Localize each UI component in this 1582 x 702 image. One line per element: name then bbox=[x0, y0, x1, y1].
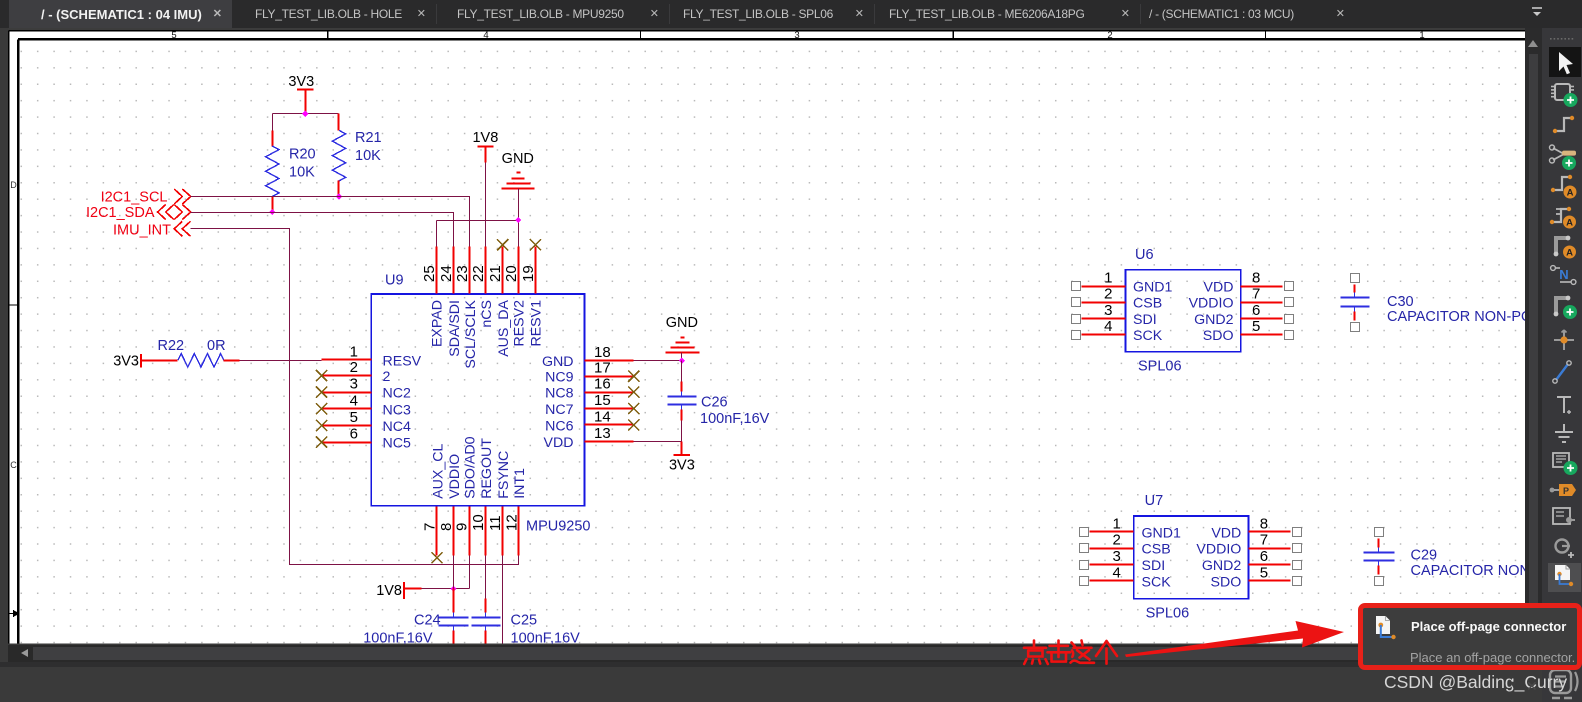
svg-text:5: 5 bbox=[171, 30, 176, 41]
svg-text:14: 14 bbox=[594, 409, 611, 426]
red annotation arrow bbox=[1125, 621, 1344, 657]
svg-text:17: 17 bbox=[594, 360, 611, 377]
svg-text:VDD: VDD bbox=[1211, 525, 1241, 541]
U9 pin 5 (NC4) bbox=[316, 409, 411, 435]
U7 pin 6 (GND2) bbox=[1202, 548, 1302, 574]
svg-text:3: 3 bbox=[1104, 302, 1112, 319]
svg-text:2: 2 bbox=[1107, 30, 1112, 41]
wire 1V8 rail to pins 8,9 bbox=[422, 588, 470, 590]
U9 pin 11 (FSYNC) bbox=[487, 451, 512, 556]
U9 pin 20 (RESV2) bbox=[503, 247, 528, 347]
svg-text:N: N bbox=[1559, 267, 1568, 282]
U7 pin 5 (SDO) bbox=[1211, 565, 1302, 591]
svg-text:4: 4 bbox=[1112, 565, 1120, 582]
IC U9 MPU9250 body bbox=[371, 273, 590, 535]
svg-text:4: 4 bbox=[483, 30, 488, 41]
wire U9 pin8 column down bbox=[453, 556, 455, 589]
junction GND/C26/pin18 bbox=[679, 358, 685, 364]
svg-text:SDO: SDO bbox=[1211, 575, 1242, 591]
svg-text:GND2: GND2 bbox=[1202, 558, 1242, 574]
ground symbol GND (top, near U9) bbox=[502, 151, 535, 221]
svg-text:8: 8 bbox=[438, 523, 455, 531]
capacitor C29 CAPACITOR NON-POL bbox=[1364, 528, 1564, 586]
svg-text:CAPACITOR NON-POL: CAPACITOR NON-POL bbox=[1411, 563, 1526, 579]
svg-text:10: 10 bbox=[470, 514, 487, 531]
svg-text:20: 20 bbox=[503, 265, 520, 282]
power symbol 1V8 (bottom) bbox=[376, 582, 421, 599]
svg-text:1: 1 bbox=[1419, 30, 1424, 41]
svg-text:3: 3 bbox=[350, 376, 358, 393]
U7 pin 1 (GND1) bbox=[1080, 515, 1182, 541]
capacitor C30 CAPACITOR NON-POL bbox=[1341, 274, 1541, 332]
U9 pin 2 (2) bbox=[316, 359, 391, 385]
wire I2C1_SDA to U9 pin 24 bbox=[191, 213, 454, 247]
U9 pin 16 (NC8) bbox=[545, 376, 639, 402]
svg-text:D: D bbox=[10, 180, 17, 190]
svg-text:C30: C30 bbox=[1387, 294, 1414, 310]
U9 pin 9 (SDO/AD0) bbox=[454, 436, 479, 555]
svg-text:10K: 10K bbox=[289, 165, 315, 181]
svg-text:GND: GND bbox=[542, 354, 574, 370]
svg-text:nCS: nCS bbox=[479, 300, 495, 328]
svg-text:GND2: GND2 bbox=[1194, 312, 1234, 328]
resistor R21 10K bbox=[332, 114, 381, 197]
svg-text:C25: C25 bbox=[511, 613, 538, 629]
svg-text:15: 15 bbox=[594, 392, 611, 409]
svg-text:VDD: VDD bbox=[544, 435, 574, 451]
U6 pin 7 (VDDIO) bbox=[1189, 286, 1294, 312]
U9 pin 14 (NC6) bbox=[545, 409, 639, 435]
svg-text:C29: C29 bbox=[1411, 548, 1438, 564]
resistor R20 10K bbox=[266, 114, 316, 213]
svg-text:R22: R22 bbox=[158, 338, 185, 354]
red annotation text 点击这个 bbox=[1024, 641, 1117, 665]
wire R22 to U9 pin 1 bbox=[240, 360, 322, 362]
svg-text:SCK: SCK bbox=[1133, 328, 1163, 344]
svg-text:SPL06: SPL06 bbox=[1138, 359, 1182, 375]
svg-text:AUX_CL: AUX_CL bbox=[430, 443, 446, 498]
U7 pin 8 (VDD) bbox=[1211, 515, 1301, 541]
svg-text:RESV1: RESV1 bbox=[529, 300, 545, 347]
U9 pin 4 (NC3) bbox=[316, 392, 411, 418]
U9 pin 13 (VDD) bbox=[544, 425, 634, 451]
svg-text:I2C1_SDA: I2C1_SDA bbox=[86, 205, 155, 221]
svg-text:5: 5 bbox=[1260, 565, 1268, 582]
junction 1V8 / C24 bbox=[450, 586, 456, 592]
svg-text:5: 5 bbox=[350, 409, 358, 426]
svg-text:GND1: GND1 bbox=[1133, 280, 1173, 296]
svg-text:U7: U7 bbox=[1145, 493, 1164, 509]
svg-text:22: 22 bbox=[470, 265, 487, 282]
svg-text:NC5: NC5 bbox=[383, 436, 411, 452]
svg-text:1: 1 bbox=[1112, 515, 1120, 532]
svg-text:EXPAD: EXPAD bbox=[430, 300, 446, 347]
svg-text:2: 2 bbox=[1112, 532, 1120, 549]
svg-text:12: 12 bbox=[503, 514, 520, 531]
svg-text:19: 19 bbox=[520, 265, 537, 282]
svg-text:IMU_INT: IMU_INT bbox=[113, 223, 171, 239]
svg-text:NC9: NC9 bbox=[545, 370, 573, 386]
U6 pin 3 (SDI) bbox=[1072, 302, 1157, 328]
svg-text:8: 8 bbox=[1260, 515, 1268, 532]
power symbol 1V8 (top) bbox=[472, 130, 498, 163]
svg-text:VDDIO: VDDIO bbox=[447, 454, 463, 499]
svg-text:9: 9 bbox=[454, 523, 471, 531]
wire GND to U9 pin 20 bbox=[518, 221, 520, 247]
svg-text:SCK: SCK bbox=[1142, 575, 1172, 591]
svg-text:NC6: NC6 bbox=[545, 419, 573, 435]
U9 pin 8 (VDDIO) bbox=[438, 454, 463, 556]
svg-text:SPL06: SPL06 bbox=[1146, 606, 1190, 622]
svg-text:CSB: CSB bbox=[1133, 296, 1162, 312]
U9 pin 7 (AUX_CL) bbox=[422, 443, 447, 563]
wire I2C1_SCL to U9 pin 23 bbox=[191, 197, 470, 247]
U9 pin 15 (NC7) bbox=[545, 392, 639, 418]
svg-text:0R: 0R bbox=[207, 338, 226, 354]
U9 pin 23 (SCL/SCLK) bbox=[454, 247, 479, 369]
svg-text:INT1: INT1 bbox=[512, 468, 528, 499]
U9 pin 19 (RESV1) bbox=[520, 239, 545, 346]
svg-text:SDA/SDI: SDA/SDI bbox=[447, 300, 463, 357]
svg-text:RESV: RESV bbox=[383, 353, 422, 369]
U7 pin 3 (SDI) bbox=[1080, 548, 1166, 574]
svg-text:A: A bbox=[1566, 248, 1573, 259]
svg-text:A: A bbox=[1566, 218, 1573, 229]
svg-text:R21: R21 bbox=[355, 130, 382, 146]
off-page connector I2C1_SDA bbox=[86, 205, 191, 222]
power symbol 3V3 (top) bbox=[288, 74, 314, 114]
svg-text:11: 11 bbox=[487, 515, 504, 531]
svg-text:5: 5 bbox=[1252, 318, 1260, 335]
wire IMU_INT to U9 pin 12 (INT1) bbox=[191, 229, 519, 565]
svg-text:SDI: SDI bbox=[1133, 312, 1157, 328]
junction 3V3/R20/R21 bbox=[302, 111, 308, 117]
wire U9 pin13 VDD to C26/3V3 bbox=[634, 441, 682, 443]
U9 pin 1 (RESV) bbox=[322, 343, 422, 369]
svg-text:13: 13 bbox=[594, 425, 611, 442]
junction GND rail bbox=[515, 217, 521, 223]
U7 pin 2 (CSB) bbox=[1080, 532, 1171, 558]
svg-text:SDO: SDO bbox=[1203, 328, 1234, 344]
wire 1V8 to U9 pin 22 bbox=[485, 163, 487, 247]
svg-text:1: 1 bbox=[350, 343, 358, 360]
U9 pin 10 (REGOUT) bbox=[470, 438, 495, 556]
U7 pin 7 (VDDIO) bbox=[1196, 532, 1301, 558]
U9 pin 25 (EXPAD) bbox=[421, 247, 446, 348]
power symbol 3V3 (below C26) bbox=[669, 442, 695, 474]
svg-text:1: 1 bbox=[1104, 270, 1112, 287]
svg-text:NC3: NC3 bbox=[383, 402, 411, 418]
svg-text:1V8: 1V8 bbox=[472, 130, 498, 146]
wire U9 pin10 column down to C25 bbox=[485, 556, 487, 599]
svg-text:C26: C26 bbox=[701, 395, 728, 411]
svg-text:GND: GND bbox=[666, 315, 698, 331]
U9 pin 21 (AUS_DA) bbox=[487, 239, 512, 357]
svg-text:6: 6 bbox=[1260, 548, 1268, 565]
wire GND rail to U9 pin 25 bbox=[437, 221, 519, 247]
U9 pin 3 (NC2) bbox=[316, 376, 411, 402]
wire U9 pin11 column down bbox=[502, 556, 504, 644]
svg-text:U9: U9 bbox=[385, 273, 404, 289]
svg-text:100nF,16V: 100nF,16V bbox=[363, 631, 433, 644]
svg-text:8: 8 bbox=[1252, 270, 1260, 287]
wire U9 pin18 GND to C26 bbox=[634, 360, 682, 362]
U9 pin 22 (nCS) bbox=[470, 247, 495, 328]
svg-text:24: 24 bbox=[438, 265, 455, 282]
svg-text:2: 2 bbox=[350, 359, 358, 376]
svg-text:25: 25 bbox=[421, 265, 438, 282]
svg-text:NC4: NC4 bbox=[383, 419, 411, 435]
svg-text:AUS_DA: AUS_DA bbox=[496, 299, 512, 356]
svg-text:21: 21 bbox=[487, 265, 504, 282]
resistor R22 0R bbox=[158, 338, 240, 367]
svg-text:6: 6 bbox=[1252, 302, 1260, 319]
svg-text:I2C1_SCL: I2C1_SCL bbox=[101, 190, 168, 206]
svg-text:100nF,16V: 100nF,16V bbox=[700, 411, 770, 427]
svg-text:MPU9250: MPU9250 bbox=[526, 519, 590, 535]
svg-text:REGOUT: REGOUT bbox=[479, 438, 495, 499]
capacitor C24 100nF,16V bbox=[363, 589, 468, 647]
svg-text:1V8: 1V8 bbox=[376, 583, 402, 599]
svg-text:NC2: NC2 bbox=[383, 386, 411, 402]
svg-text:SCL/SCLK: SCL/SCLK bbox=[463, 299, 479, 368]
svg-text:3V3: 3V3 bbox=[113, 354, 139, 370]
svg-text:U6: U6 bbox=[1135, 247, 1154, 263]
svg-text:VDDIO: VDDIO bbox=[1189, 296, 1234, 312]
U6 pin 1 (GND1) bbox=[1072, 270, 1173, 296]
junction R21 / I2C1_SCL bbox=[336, 193, 342, 199]
off-page connector I2C1_SCL bbox=[101, 189, 191, 206]
svg-text:3V3: 3V3 bbox=[669, 458, 695, 474]
svg-text:3V3: 3V3 bbox=[288, 74, 314, 90]
svg-text:3: 3 bbox=[1112, 548, 1120, 565]
svg-text:GND: GND bbox=[502, 151, 534, 167]
svg-text:NC7: NC7 bbox=[545, 402, 573, 418]
svg-text:SDO/AD0: SDO/AD0 bbox=[463, 436, 479, 498]
U6 pin 2 (CSB) bbox=[1072, 286, 1163, 312]
svg-text:16: 16 bbox=[594, 376, 611, 393]
sheet margin arrow marker bbox=[8, 610, 19, 618]
svg-text:GND1: GND1 bbox=[1142, 525, 1182, 541]
svg-text:P: P bbox=[1563, 486, 1569, 496]
U9 pin 24 (SDA/SDI) bbox=[438, 247, 463, 357]
svg-text:CAPACITOR NON-POL: CAPACITOR NON-POL bbox=[1387, 309, 1525, 325]
svg-text:7: 7 bbox=[422, 523, 439, 531]
svg-text:3: 3 bbox=[794, 30, 799, 41]
U6 pin 6 (GND2) bbox=[1194, 302, 1293, 328]
svg-text:4: 4 bbox=[1104, 318, 1112, 335]
svg-text:2: 2 bbox=[1104, 286, 1112, 303]
svg-text:VDDIO: VDDIO bbox=[1196, 542, 1241, 558]
U9 pin 17 (NC9) bbox=[545, 360, 639, 386]
svg-text:6: 6 bbox=[350, 426, 358, 443]
wire U9 pin9 column down bbox=[469, 556, 471, 589]
U9 pin 12 (INT1) bbox=[503, 468, 528, 556]
svg-text:7: 7 bbox=[1260, 532, 1268, 549]
svg-text:18: 18 bbox=[594, 344, 611, 361]
svg-text:FSYNC: FSYNC bbox=[496, 451, 512, 499]
power symbol 3V3 (left, at R22) bbox=[113, 354, 177, 370]
svg-text:VDD: VDD bbox=[1204, 280, 1234, 296]
U7 pin 4 (SCK) bbox=[1080, 565, 1172, 591]
U6 pin 4 (SCK) bbox=[1072, 318, 1163, 344]
svg-text:2: 2 bbox=[383, 369, 391, 385]
svg-text:7: 7 bbox=[1252, 286, 1260, 303]
capacitor C25 100nF,16V bbox=[472, 599, 581, 647]
svg-text:4: 4 bbox=[350, 392, 358, 409]
off-page connector IMU_INT bbox=[113, 221, 191, 238]
svg-text:23: 23 bbox=[454, 265, 471, 282]
svg-text:C24: C24 bbox=[414, 613, 441, 629]
U9 pin 18 (GND) bbox=[542, 344, 634, 370]
wire 3V3 rail to R20/R21 bbox=[273, 113, 339, 115]
junction R20 / I2C1_SDA bbox=[269, 209, 275, 215]
svg-text:C: C bbox=[10, 460, 17, 470]
U9 pin 6 (NC5) bbox=[316, 426, 411, 452]
IC U6 SPL06 body bbox=[1125, 247, 1240, 375]
svg-text:CSB: CSB bbox=[1142, 542, 1171, 558]
capacitor C26 100nF,16V bbox=[668, 361, 770, 442]
svg-text:NC8: NC8 bbox=[545, 386, 573, 402]
svg-text:R20: R20 bbox=[289, 147, 316, 163]
svg-text:100nF,16V: 100nF,16V bbox=[511, 631, 581, 644]
IC U7 SPL06 body bbox=[1134, 493, 1249, 622]
U6 pin 8 (VDD) bbox=[1204, 270, 1294, 296]
svg-text:10K: 10K bbox=[355, 148, 381, 164]
svg-text:RESV2: RESV2 bbox=[512, 300, 528, 347]
svg-text:SDI: SDI bbox=[1142, 558, 1166, 574]
ground symbol GND (right, above C26) bbox=[666, 315, 700, 361]
svg-text:A: A bbox=[1567, 188, 1574, 199]
U6 pin 5 (SDO) bbox=[1203, 318, 1294, 344]
